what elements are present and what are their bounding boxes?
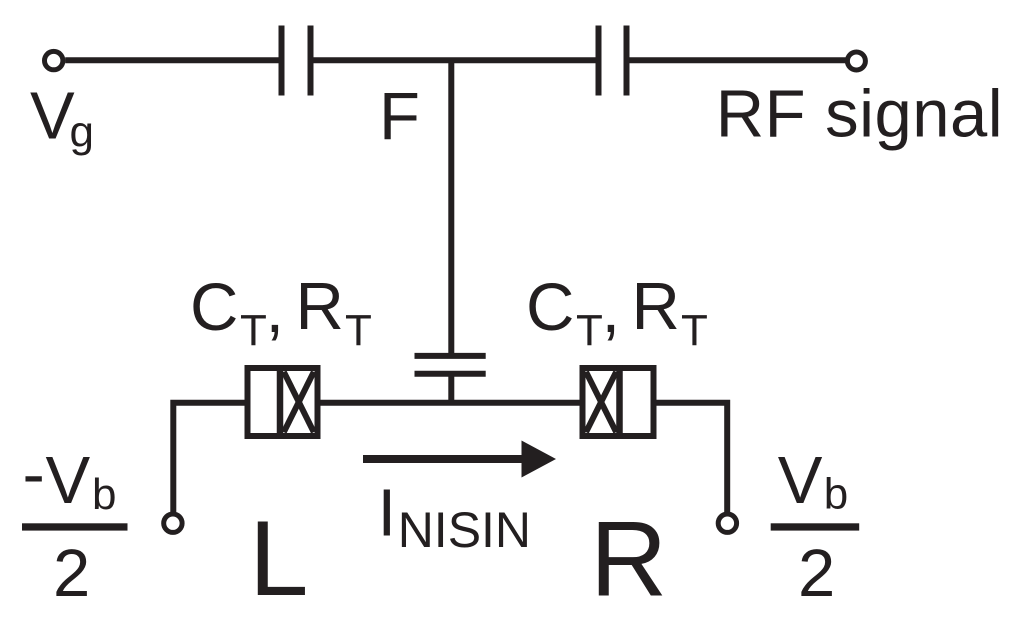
terminal RF signal bbox=[847, 52, 865, 70]
svg-text:2: 2 bbox=[798, 536, 835, 611]
svg-text:F: F bbox=[379, 79, 420, 154]
terminal Vb/2 bbox=[718, 514, 736, 532]
svg-text:b: b bbox=[92, 470, 116, 519]
wire C1 to C2 through node F bbox=[314, 57, 596, 63]
svg-text:T: T bbox=[345, 306, 372, 355]
capacitor C-island (to island node) bbox=[415, 356, 486, 400]
arrow I_NISIN head bbox=[522, 441, 557, 478]
label I_NISIN current bbox=[378, 476, 532, 559]
svg-text:NISIN: NISIN bbox=[398, 502, 531, 558]
fraction bar -Vb/2 bbox=[22, 523, 128, 530]
terminal Vg bbox=[45, 51, 63, 69]
tunnel junction L cross bbox=[284, 372, 314, 432]
tunnel junction R cross bbox=[586, 372, 616, 432]
svg-text:L: L bbox=[249, 498, 309, 618]
arrow I_NISIN shaft bbox=[363, 455, 526, 463]
svg-text:V: V bbox=[778, 443, 823, 518]
svg-text:V: V bbox=[30, 79, 75, 154]
capacitor C2 (RF coupling, right) bbox=[599, 26, 627, 96]
svg-text:-: - bbox=[23, 437, 45, 512]
svg-text:T: T bbox=[681, 306, 708, 355]
wire island bus: junction L to junction R bbox=[321, 400, 580, 406]
label CT,RT junction R bbox=[526, 269, 708, 355]
svg-text:R: R bbox=[590, 499, 667, 619]
svg-text:T: T bbox=[240, 306, 267, 355]
svg-text:I: I bbox=[378, 476, 397, 551]
wire node F down to island capacitor bbox=[448, 60, 454, 353]
tunnel junction L (NIS junction, box) bbox=[248, 368, 318, 436]
svg-text:,: , bbox=[602, 272, 621, 347]
capacitor C1 (gate coupling, left) bbox=[282, 26, 311, 96]
svg-text:C: C bbox=[190, 270, 238, 345]
tunnel junction R divider bbox=[616, 365, 623, 439]
tunnel junction L divider bbox=[277, 365, 284, 439]
svg-text:R: R bbox=[632, 269, 680, 344]
label Vg bbox=[30, 79, 94, 157]
wire right bias: junction R right and down to terminal bbox=[657, 403, 728, 512]
svg-text:g: g bbox=[70, 108, 94, 157]
wire C2 to RF terminal bbox=[630, 57, 846, 63]
svg-text:,: , bbox=[266, 272, 285, 347]
fraction bar Vb/2 bbox=[771, 523, 860, 530]
label CT,RT junction L bbox=[190, 269, 372, 355]
svg-text:RF signal: RF signal bbox=[716, 77, 1003, 152]
tunnel junction R (NIS junction, box) bbox=[583, 368, 654, 436]
svg-text:R: R bbox=[296, 269, 344, 344]
svg-text:C: C bbox=[526, 270, 574, 345]
wire left bias: terminal up and right to junction L bbox=[173, 403, 244, 512]
svg-text:T: T bbox=[576, 306, 603, 355]
svg-text:b: b bbox=[824, 470, 848, 519]
label Vb numerator bbox=[778, 443, 848, 519]
svg-text:2: 2 bbox=[53, 536, 90, 611]
svg-text:V: V bbox=[46, 443, 91, 518]
label -Vb numerator bbox=[23, 437, 117, 520]
wire top-left: Vg terminal to C1 bbox=[65, 57, 278, 63]
terminal -Vb/2 bbox=[164, 514, 182, 532]
